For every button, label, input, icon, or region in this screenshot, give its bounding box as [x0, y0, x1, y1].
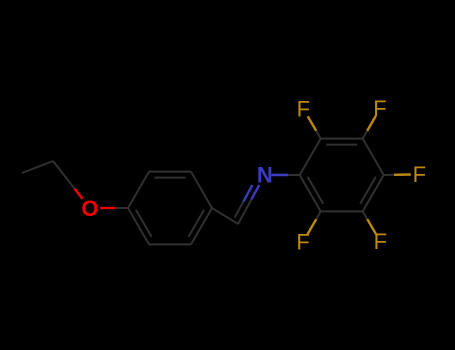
- svg-text:F: F: [374, 229, 387, 254]
- svg-text:F: F: [297, 97, 310, 122]
- double bond CH=N main carbon half: [238, 199, 251, 224]
- double bond CH=N inner carbon half: [235, 201, 244, 217]
- bond CH3-CH2 (ethyl): [22, 161, 53, 173]
- bond N-ring2 nitrogen half: [272, 174, 289, 176]
- benzene ring 2 edge TR-R: [363, 139, 384, 175]
- benzene ring 2 inner double bond right: [360, 177, 376, 204]
- svg-text:N: N: [257, 162, 273, 187]
- benzene ring 2 edge TL-TR: [321, 138, 363, 140]
- bond O-ring1 oxygen half: [100, 207, 115, 209]
- bond C-F bottom-right carbon half: [363, 211, 368, 219]
- bond C-F top-left carbon half: [316, 131, 321, 139]
- bond N-ring2 carbon half: [288, 174, 300, 176]
- benzene ring 1 edge R-BR: [191, 208, 212, 244]
- benzene ring 2 inner double bond left: [308, 177, 324, 204]
- benzene ring 2 edge R-BR: [363, 175, 384, 211]
- benzene ring 1 inner double bond left: [136, 210, 152, 237]
- bond O-ring1 carbon half: [115, 207, 128, 209]
- bond C-F top-right carbon half: [363, 131, 368, 139]
- bond C-F right carbon half: [384, 174, 394, 176]
- svg-text:F: F: [296, 230, 309, 255]
- bond C-F top-left fluorine half: [308, 116, 317, 131]
- benzene ring 2 edge L-TL: [300, 139, 321, 175]
- benzene ring 1 edge BL-L: [128, 208, 149, 244]
- svg-text:F: F: [373, 96, 386, 121]
- svg-text:O: O: [81, 196, 98, 221]
- benzene ring 1 edge L-TL: [128, 172, 149, 208]
- benzene ring 2 edge BL-L: [300, 175, 321, 211]
- benzene ring 1 inner double bond top: [155, 177, 186, 179]
- benzene ring 1 inner double bond right: [189, 210, 205, 237]
- bond C-F top-right fluorine half: [367, 116, 376, 131]
- benzene ring 2 inner double bond top: [326, 144, 357, 146]
- benzene ring 2 edge BR-BL: [321, 210, 363, 212]
- double bond CH=N main nitrogen half: [251, 185, 259, 200]
- bond C-F bottom-left fluorine half: [307, 219, 316, 234]
- benzene ring 1 edge BR-BL: [149, 243, 191, 245]
- benzene ring 1 edge TR-R: [191, 172, 212, 208]
- bond C-F right fluorine half: [394, 173, 411, 176]
- bond C-F bottom-right fluorine half: [367, 219, 376, 234]
- bond CH2-O carbon half: [53, 161, 74, 189]
- bond C-F bottom-left carbon half: [316, 211, 321, 219]
- bond CH2-O oxygen half: [74, 189, 82, 199]
- double bond CH=N inner nitrogen half: [244, 185, 253, 201]
- benzene ring 1 edge TL-TR: [149, 171, 191, 173]
- svg-text:F: F: [413, 162, 426, 187]
- bond ring1-CH: [212, 208, 238, 224]
